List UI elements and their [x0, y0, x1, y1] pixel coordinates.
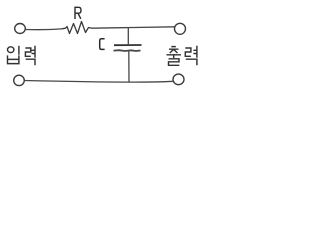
label R — [75, 7, 81, 19]
label 출력 : syllable 력 — [185, 46, 197, 66]
resistor R1 — [62, 22, 92, 34]
출 ㅜ — [167, 55, 182, 58]
wire top-left to resistor — [26, 28, 63, 31]
력 ㄹ — [185, 48, 191, 56]
terminal bottom-left — [14, 75, 25, 85]
출 ㅊ — [169, 47, 179, 53]
력 ㄹ — [25, 48, 30, 56]
입 ㅣ — [18, 46, 20, 55]
label 입력 : syllable 입 — [8, 46, 19, 64]
capacitor top plate — [114, 44, 142, 46]
label C — [100, 39, 105, 50]
력 ㅕ — [32, 46, 36, 58]
wire resistor to top-right terminal — [92, 27, 175, 28]
terminal bottom-right — [173, 74, 184, 85]
력 ㄱ — [186, 59, 197, 65]
bottom wire — [25, 81, 174, 83]
terminal top-right — [175, 23, 186, 34]
capacitor C1 stub top — [127, 28, 129, 44]
입 ㅇ — [8, 47, 14, 53]
capacitor bottom plate — [114, 49, 141, 52]
출 ㄹ — [169, 59, 180, 66]
label 입력 : syllable 력 — [25, 46, 35, 66]
력 ㅕ — [193, 46, 197, 58]
력 ㄱ — [26, 59, 35, 65]
capacitor C1 stub bottom / wire to bottom rail — [128, 52, 130, 82]
terminal top-left — [15, 24, 26, 34]
입 ㅂ — [8, 55, 19, 63]
label 출력 : syllable 출 — [167, 47, 182, 66]
